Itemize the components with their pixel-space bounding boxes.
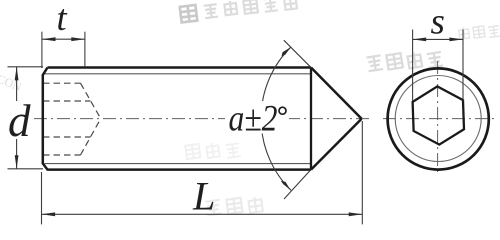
hidden socket line upper outer	[43, 82, 81, 84]
L ext line left	[41, 172, 43, 224]
centerline end view vertical	[437, 61, 439, 176]
watermark right of cone	[366, 46, 443, 77]
svg-text:d: d	[8, 96, 31, 146]
body outline	[43, 68, 311, 170]
t dim line	[42, 38, 85, 40]
L dim line	[42, 213, 363, 215]
angle extension line upper	[284, 40, 311, 67]
svg-text:a±2: a±2	[229, 99, 278, 140]
cone slant lower	[311, 119, 362, 170]
hidden socket cone lower diagonal	[81, 119, 101, 155]
angle arc	[261, 47, 291, 190]
d dim line lower	[16, 139, 18, 169]
d arrow bottom	[15, 155, 19, 169]
cone slant upper	[311, 68, 362, 119]
d arrow top	[15, 67, 19, 81]
centerline end view horizontal	[383, 118, 496, 120]
svg-text:L: L	[192, 173, 215, 218]
L arrow right	[349, 212, 363, 216]
hidden socket line lower outer	[43, 154, 81, 156]
watermark top right corner	[458, 22, 500, 41]
t ext line right	[84, 32, 86, 67]
t arrow left	[42, 37, 56, 41]
hidden socket line upper inner	[43, 100, 91, 102]
s ext line left	[412, 30, 414, 101]
watermark mid body	[185, 138, 240, 163]
watermark top center row	[180, 0, 297, 23]
s arrow left	[413, 38, 427, 42]
s arrow right	[449, 38, 463, 42]
thread minor line top	[45, 73, 312, 75]
centerline side view	[34, 118, 371, 120]
angle arc arrow upper	[282, 47, 291, 56]
hidden socket line lower inner	[43, 136, 91, 138]
end view chamfer circle	[395, 76, 481, 162]
angle extension line lower	[284, 170, 311, 199]
t ext line left	[41, 32, 43, 68]
L ext line right	[361, 121, 363, 224]
t arrow right	[71, 37, 85, 41]
L arrow left	[42, 212, 56, 216]
thread minor line bottom	[45, 163, 312, 165]
angle arc arrow lower	[281, 181, 291, 190]
d dim line upper	[16, 67, 18, 101]
hex socket	[412, 86, 464, 146]
cone base line	[310, 68, 312, 170]
s ext line right	[462, 30, 464, 101]
d ext line top	[8, 66, 44, 68]
end view outer circle	[388, 68, 489, 169]
svg-text:t: t	[57, 0, 68, 38]
hidden socket cone upper diagonal	[81, 83, 101, 118]
s dim line	[413, 38, 463, 40]
svg-text:CON: CON	[0, 71, 24, 94]
d ext line bottom	[8, 168, 44, 170]
watermark bottom center	[205, 194, 262, 219]
label a±2° knockout	[225, 101, 289, 134]
degree symbol	[279, 107, 286, 114]
svg-text:s: s	[431, 2, 445, 43]
